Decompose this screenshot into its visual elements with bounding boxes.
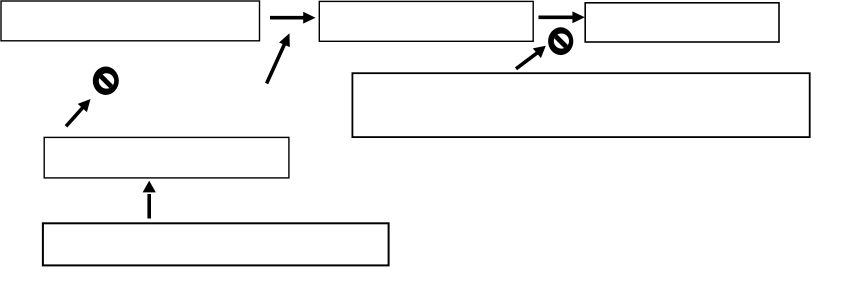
box top-left	[1, 1, 260, 41]
arrow from top-middle box to top-right box	[539, 11, 585, 23]
diagonal arrow toward left no-symbol	[66, 99, 91, 126]
big box right-middle	[352, 73, 809, 137]
vertical arrow from bottom box to middle-left box	[143, 181, 156, 219]
arrow from top-left box to top-middle box	[270, 12, 316, 24]
box top-right	[585, 3, 779, 42]
diagonal arrow from big box toward right no-symbol	[516, 46, 546, 69]
no-symbol beside top-right box	[548, 27, 573, 55]
box bottom	[43, 223, 389, 265]
no-symbol left	[93, 67, 119, 95]
box top-middle	[319, 1, 533, 41]
diagonal arrow from middle-left box toward top-middle box	[267, 33, 290, 83]
box middle-left	[44, 137, 289, 178]
